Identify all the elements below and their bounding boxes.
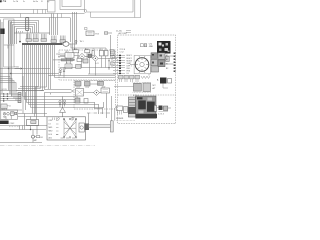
chain line bottom	[0, 145, 95, 147]
fan housing	[134, 56, 150, 74]
comp row right-mid: box with 3 legs	[117, 106, 123, 111]
bus wires right of connector	[29, 21, 39, 33]
blower cable tube	[89, 125, 111, 128]
small box pair	[140, 44, 143, 47]
switch lattice X	[64, 119, 76, 137]
bottom-left switch cluster	[1, 110, 18, 119]
pin group 5	[60, 36, 66, 43]
blower switch box	[47, 117, 86, 140]
block right bracket	[154, 105, 156, 111]
svg-text:ILL: ILL	[127, 73, 130, 75]
fan motor circle	[135, 58, 149, 72]
thermo symbol	[75, 40, 77, 42]
svg-text:1 2 3 4: 1 2 3 4	[158, 114, 164, 116]
svg-text:ECU-4: ECU-4	[133, 95, 138, 97]
svg-text:B21: B21	[66, 51, 69, 53]
svg-text:A2: A2	[166, 58, 168, 61]
junction dots	[8, 68, 9, 69]
svg-text:4WD: 4WD	[149, 46, 154, 48]
resistor block in box	[79, 123, 84, 132]
pin group 3	[41, 34, 47, 42]
svg-text:A1: A1	[166, 54, 168, 57]
long wires center	[49, 76, 116, 78]
wire from bracket	[114, 108, 116, 121]
row2 diamond2	[93, 56, 99, 62]
svg-text:B1: B1	[41, 137, 43, 139]
svg-text:ooooo: ooooo	[116, 117, 124, 120]
row pin ticks	[119, 55, 121, 74]
switch contacts	[63, 118, 65, 120]
wires lower left	[0, 109, 22, 111]
fuse box F11	[1, 104, 7, 109]
arrows vertical right in amp	[108, 58, 110, 70]
hatched comps right of fan	[151, 53, 158, 59]
row4 boxes	[65, 64, 72, 69]
svg-text:ME1: ME1	[49, 127, 53, 129]
symbol b9	[84, 99, 88, 104]
relay hatched box r5	[98, 81, 104, 85]
harness bundle thick bar	[22, 43, 63, 45]
row3 boxes right of arrow	[77, 58, 82, 61]
relay cluster wires	[84, 84, 102, 93]
connector strip row	[119, 75, 140, 79]
svg-text:T3: T3	[93, 49, 95, 51]
wire loop to right	[69, 43, 77, 45]
center verticals from unit box	[50, 12, 77, 50]
connector tab box top	[48, 1, 56, 13]
svg-text:AC1: AC1	[74, 47, 77, 50]
right comps row of block	[159, 106, 163, 111]
svg-text:B2: B2	[166, 68, 168, 70]
connector rows X1	[0, 94, 18, 101]
dark box A right	[160, 78, 167, 84]
row2 dark box	[88, 54, 92, 58]
strip pins	[120, 79, 139, 82]
wires into dashed box left	[56, 54, 65, 57]
stub wire with terminal dot	[19, 33, 21, 41]
blower cable connector dark	[85, 124, 89, 130]
wire lamp bottom	[0, 138, 42, 143]
horizontals lower-left crossing	[0, 91, 103, 108]
breaker symbol	[36, 136, 40, 138]
switch text column	[49, 120, 54, 140]
bundle verticals below bar	[23, 45, 55, 120]
central labels smudge	[66, 47, 106, 99]
fan corners left mid	[16, 87, 51, 117]
svg-text:RY3: RY3	[86, 87, 89, 89]
K2 pin stubs	[31, 126, 38, 135]
block dark bottom cap	[136, 114, 157, 118]
junction bar dark	[14, 32, 50, 34]
gauge circles	[3, 113, 6, 116]
interconnect verticals in amp box	[67, 53, 113, 76]
row2 diamond diode	[79, 53, 85, 59]
left edge verticals	[1, 20, 3, 111]
svg-text:A21: A21	[49, 137, 52, 140]
svg-text:A/C UNIT: A/C UNIT	[119, 32, 128, 35]
svg-text:A-21 S: A-21 S	[2, 108, 9, 111]
harness tube	[44, 89, 74, 92]
comp boxes row y50	[73, 50, 79, 53]
connector block C101	[26, 18, 29, 31]
wire bus top y9.5	[0, 9, 48, 11]
pin group 2	[33, 34, 38, 42]
small comps inside box top	[72, 118, 75, 121]
unit box B	[60, 0, 85, 10]
svg-text:2a 2b: 2a 2b	[13, 1, 19, 3]
fuse label dark	[0, 29, 5, 35]
stem symbols (thermo)	[59, 68, 65, 78]
hatched pair mid with sawtooth border	[134, 83, 142, 91]
small box2	[124, 107, 128, 113]
svg-text:HI 4: HI 4	[49, 134, 52, 136]
ground E501 arrow	[15, 68, 23, 70]
blower box top marks	[53, 118, 57, 121]
right edge pin ticks	[174, 53, 176, 72]
dashed box central (amplifier)	[59, 50, 116, 80]
wires fan cluster	[130, 56, 174, 76]
coil K1	[76, 89, 84, 97]
row2 connecting wires	[60, 55, 117, 74]
pin group 1	[26, 34, 32, 42]
lamp L1	[32, 135, 35, 138]
svg-text:ME2: ME2	[49, 131, 53, 133]
svg-text:3c: 3c	[23, 1, 25, 3]
svg-text:K9: K9	[77, 57, 79, 59]
wire row	[0, 129, 46, 131]
QR dark block	[157, 41, 171, 54]
wire bus y14	[0, 13, 85, 15]
chain link mid	[87, 112, 111, 114]
text label column	[127, 55, 133, 75]
pin group 4	[51, 36, 57, 43]
wire into pair	[114, 86, 134, 88]
wires bottom-left	[0, 116, 47, 130]
relay K2	[27, 120, 39, 126]
bus taps verticals	[21, 10, 62, 18]
svg-text:21-4 A: 21-4 A	[116, 30, 122, 33]
dark label plate	[0, 121, 9, 125]
wires E-row	[0, 69, 59, 74]
box b7	[101, 88, 110, 93]
dashed divider	[118, 94, 176, 96]
svg-text:F24: F24	[96, 34, 99, 36]
marks S4	[15, 112, 17, 115]
diamond diode d2	[94, 90, 100, 96]
right col small boxes in amp	[111, 51, 115, 54]
blower box bottom contact marks	[56, 135, 75, 139]
text right col	[166, 54, 168, 70]
svg-text:B2 R5: B2 R5	[2, 89, 7, 91]
ground triangle center	[60, 97, 66, 117]
control unit block: left connector strip	[128, 97, 135, 117]
row2: box b1	[65, 53, 74, 58]
relay hatched box r3	[75, 82, 81, 87]
unit box inner A	[62, 0, 81, 7]
fuse internal wire	[4, 45, 14, 49]
wires above relay K2	[18, 114, 47, 130]
connector tail	[26, 31, 28, 44]
wire mid row y48	[69, 35, 110, 50]
svg-text:AC2: AC2	[85, 47, 88, 50]
svg-text:D-21: D-21	[95, 63, 99, 65]
bus wires left of connector	[9, 21, 26, 45]
ground stem symbols pair	[59, 100, 66, 107]
dashed box right (heater/AC unit)	[118, 35, 176, 124]
connector block X1b	[18, 93, 21, 103]
X1 mating pins	[3, 93, 8, 101]
relay hatched box r4	[85, 82, 91, 87]
corner wires center-bottom	[86, 93, 112, 127]
unit box C right part	[84, 10, 87, 13]
relay box above dashed	[86, 31, 94, 36]
wire bus y17.5	[0, 17, 70, 19]
box S3	[11, 112, 15, 116]
svg-text:F11: F11	[8, 106, 11, 108]
svg-text:TH 1: TH 1	[80, 41, 84, 43]
harness loop	[63, 42, 69, 47]
switch arrows small	[56, 120, 59, 134]
control unit block body	[136, 96, 156, 118]
dashed box lower relay cluster	[74, 81, 116, 110]
hatched b8	[75, 98, 80, 103]
cable end bracket	[110, 121, 113, 132]
svg-text:4d 4e: 4d 4e	[33, 1, 39, 3]
svg-text:RL2: RL2	[100, 49, 103, 51]
wire rows into right box	[112, 56, 125, 74]
title text row	[0, 0, 49, 3]
svg-text:C 52: C 52	[120, 52, 124, 54]
junction bar tick labels	[17, 31, 23, 33]
left corner fan upper	[0, 77, 16, 101]
fuse drop wires	[9, 21, 12, 97]
vertical bus center-left lower	[23, 76, 26, 114]
zigzag sensor line	[141, 76, 150, 79]
thick arrow cable center	[61, 59, 75, 61]
fuse box tall left	[4, 19, 14, 67]
